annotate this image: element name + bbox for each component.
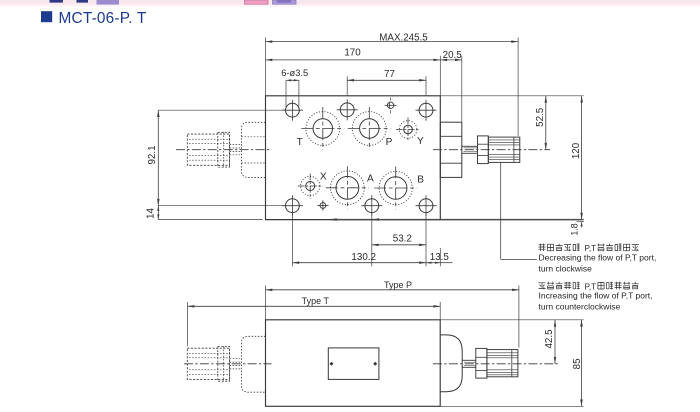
hidden cap facet lines dotted — [241, 136, 265, 138]
mounting hole bottom-left — [286, 199, 300, 213]
adjusting stem side — [462, 359, 476, 361]
title bullet square — [41, 11, 52, 22]
hidden cap dotted outline — [241, 122, 265, 177]
svg-text:Decreasing the flow of P,T por: Decreasing the flow of P,T port, — [539, 253, 657, 263]
svg-text:170: 170 — [344, 47, 361, 58]
mounting hole bottom-right — [419, 199, 433, 213]
svg-text:Type P: Type P — [384, 280, 412, 290]
pin marker top — [387, 102, 393, 108]
left centerline side view — [184, 363, 272, 365]
dimension 53.2 — [371, 213, 373, 266]
dimension 170 — [439, 56, 441, 96]
header nav tab 1 — [50, 0, 64, 3]
svg-text:MCT-06-P. T: MCT-06-P. T — [59, 10, 147, 27]
svg-text:13.5: 13.5 — [430, 252, 450, 263]
svg-text:Y: Y — [417, 136, 424, 147]
hidden cap side dotted — [241, 336, 265, 392]
svg-text:turn clockwise: turn clockwise — [539, 264, 593, 274]
header nav tab 2 — [77, 0, 89, 3]
svg-text:A: A — [367, 174, 374, 185]
svg-text:14: 14 — [146, 208, 157, 219]
svg-text:120: 120 — [571, 142, 582, 159]
svg-text:Increasing the flow of P,T por: Increasing the flow of P,T port, — [539, 291, 653, 301]
left centerline top view — [176, 149, 272, 151]
dimension 85 — [581, 320, 583, 407]
svg-text:P: P — [386, 137, 393, 148]
cartridge side thread lines — [189, 352, 228, 354]
svg-text:42.5: 42.5 — [544, 329, 555, 349]
port A — [331, 171, 365, 205]
mounting hole top-right — [419, 103, 433, 117]
mounting hole top-left — [286, 103, 300, 117]
svg-text:MAX.245.5: MAX.245.5 — [379, 32, 428, 43]
svg-text:1.8: 1.8 — [569, 223, 579, 235]
dimension 13.5 — [439, 248, 441, 266]
dimension Type P — [265, 286, 267, 320]
cartridge stem dashed — [230, 144, 242, 146]
svg-text:85: 85 — [572, 358, 583, 369]
adjusting stem — [462, 145, 478, 147]
svg-text:Type T: Type T — [302, 296, 330, 306]
header pink button — [245, 0, 269, 4]
nameplate screw left — [330, 362, 334, 366]
dimension 130.2 — [291, 213, 293, 266]
note increasing flow chinese — [539, 283, 546, 290]
mounting hole bottom-middle — [365, 199, 379, 213]
svg-text:130.2: 130.2 — [351, 252, 376, 263]
hex bushing plan — [440, 122, 462, 177]
lock nut — [478, 136, 489, 164]
port B — [379, 171, 412, 204]
nameplate rectangle — [328, 348, 379, 380]
header purple box left — [97, 0, 120, 5]
right centerline top view — [433, 149, 550, 151]
svg-text:turn counterclockwise: turn counterclockwise — [539, 302, 621, 312]
dimension MAX.245.5 — [265, 38, 267, 96]
cartridge side stem dashed — [230, 358, 242, 360]
hidden cartridge body dashed — [187, 134, 229, 165]
valve body plan outline — [266, 96, 441, 220]
port Y — [399, 121, 417, 139]
extended bottom edge line — [266, 219, 331, 221]
valve body side outline — [266, 320, 441, 407]
hex cap side view — [440, 335, 462, 392]
port X — [301, 176, 320, 195]
dimension 1.8 — [577, 221, 585, 223]
svg-text:92.1: 92.1 — [147, 145, 158, 164]
svg-text:77: 77 — [384, 69, 395, 80]
bottom edge arrows — [330, 218, 337, 221]
port T — [306, 112, 340, 146]
port P — [352, 112, 386, 146]
header strip background — [0, 0, 700, 5]
svg-text:B: B — [417, 175, 424, 186]
svg-text:T: T — [297, 137, 303, 148]
mounting hole top-middle — [340, 103, 354, 117]
dimension 77 — [346, 76, 348, 96]
dimension 42.5 — [554, 320, 556, 364]
svg-text:52.5: 52.5 — [535, 107, 546, 127]
cartridge internal thread lines — [189, 138, 228, 140]
right centerline side view — [433, 363, 558, 365]
side bottom extension line — [440, 405, 583, 407]
dimension 92.1 — [158, 109, 286, 111]
nameplate screw right — [373, 362, 377, 366]
cartridge hex nut dashed — [218, 132, 230, 167]
knurled adjusting knob — [488, 137, 520, 162]
dimension 14 — [158, 219, 262, 221]
header lavender button — [273, 0, 297, 4]
hidden cartridge side dashed — [187, 348, 229, 379]
dimension 20.5 — [461, 56, 463, 122]
svg-text:20.5: 20.5 — [443, 50, 463, 61]
pin marker bottom — [320, 203, 326, 209]
svg-text:53.2: 53.2 — [393, 234, 412, 245]
lock nut side — [476, 348, 487, 378]
dimension Type T — [187, 302, 189, 346]
svg-text:6-ø3.5: 6-ø3.5 — [281, 68, 308, 78]
note decreasing flow chinese — [539, 244, 546, 251]
cartridge side hex nut dashed — [218, 346, 230, 381]
dimension 120 — [581, 96, 583, 220]
knurled knob side — [487, 350, 518, 377]
svg-text:X: X — [320, 171, 327, 182]
dimension 52.5 — [440, 95, 583, 97]
leader to decreasing note — [500, 162, 502, 259]
side top extension line — [440, 319, 583, 321]
